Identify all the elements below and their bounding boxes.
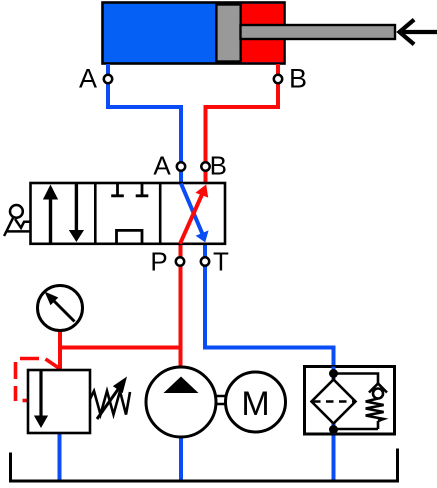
valve port B circle: [201, 162, 209, 170]
electric motor circle: [226, 372, 286, 432]
valve left position up arrow: [49, 197, 52, 244]
filter junction dot bottom: [329, 425, 338, 434]
svg-text:A: A: [153, 151, 171, 181]
svg-text:A: A: [79, 64, 97, 94]
relief valve adjustment arrow: [97, 388, 119, 419]
filter element dashed line: [313, 400, 354, 403]
force arrow at rod end: [401, 30, 437, 34]
filter diamond: [312, 380, 356, 424]
svg-text:P: P: [150, 247, 167, 277]
valve right position A-T flow (blue): [181, 184, 203, 235]
relief valve flow arrow: [39, 371, 42, 416]
filter return line through box (blue): [332, 367, 336, 435]
wire pressure manifold (red horizontal): [58, 346, 181, 350]
directional valve body: [31, 183, 226, 244]
filter inlet stub: [332, 371, 335, 380]
tank: [11, 449, 398, 482]
svg-text:B: B: [289, 64, 307, 94]
valve center position blocked port A: [111, 183, 124, 196]
bypass check valve seat: [369, 384, 387, 393]
valve port T circle: [201, 257, 209, 265]
valve left position down arrow: [75, 184, 78, 231]
bypass check valve spring: [366, 399, 384, 422]
wire valve P to pump (red riser): [179, 243, 183, 369]
svg-text:B: B: [210, 151, 227, 181]
valve section divider 2: [159, 183, 162, 244]
pump-motor coupling shaft: [216, 396, 226, 404]
svg-text:M: M: [241, 385, 269, 423]
wire cylinder B to valve B (red): [206, 64, 279, 183]
svg-text:T: T: [213, 247, 229, 277]
cylinder port A circle: [104, 75, 112, 83]
relief valve spring: [90, 391, 130, 415]
filter box: [305, 367, 395, 435]
bypass branch top: [334, 374, 379, 384]
wire valve T to filter (blue): [205, 243, 334, 481]
valve port P circle: [176, 257, 184, 265]
wire pump suction to tank (blue): [179, 435, 183, 481]
valve center position blocked port B: [136, 183, 149, 196]
pump circle: [146, 367, 216, 437]
relief valve body: [28, 370, 90, 433]
relief valve pilot line (red dashed): [46, 359, 60, 369]
wire cylinder A to valve A (blue): [108, 64, 181, 183]
valve section divider 1: [94, 183, 97, 244]
cylinder rod-end chamber (red): [241, 4, 284, 62]
wire gauge branch to relief valve (red): [58, 328, 62, 371]
valve port A circle: [177, 162, 185, 170]
manual lever operator: [10, 205, 23, 218]
cylinder body (cap end, blue side): [103, 3, 285, 64]
cylinder port B circle: [274, 75, 282, 83]
filter junction dot top: [329, 369, 338, 378]
valve right position P-B flow (red): [180, 195, 202, 244]
valve center position blocked P-T notch: [117, 230, 143, 243]
cylinder piston: [216, 5, 240, 62]
cylinder rod: [241, 25, 396, 39]
pressure gauge: [38, 286, 83, 331]
bypass branch bottom: [334, 421, 379, 429]
bypass check valve ball: [373, 389, 383, 399]
wire relief valve drain to tank (blue): [58, 431, 62, 481]
pump flow triangle: [164, 377, 199, 394]
